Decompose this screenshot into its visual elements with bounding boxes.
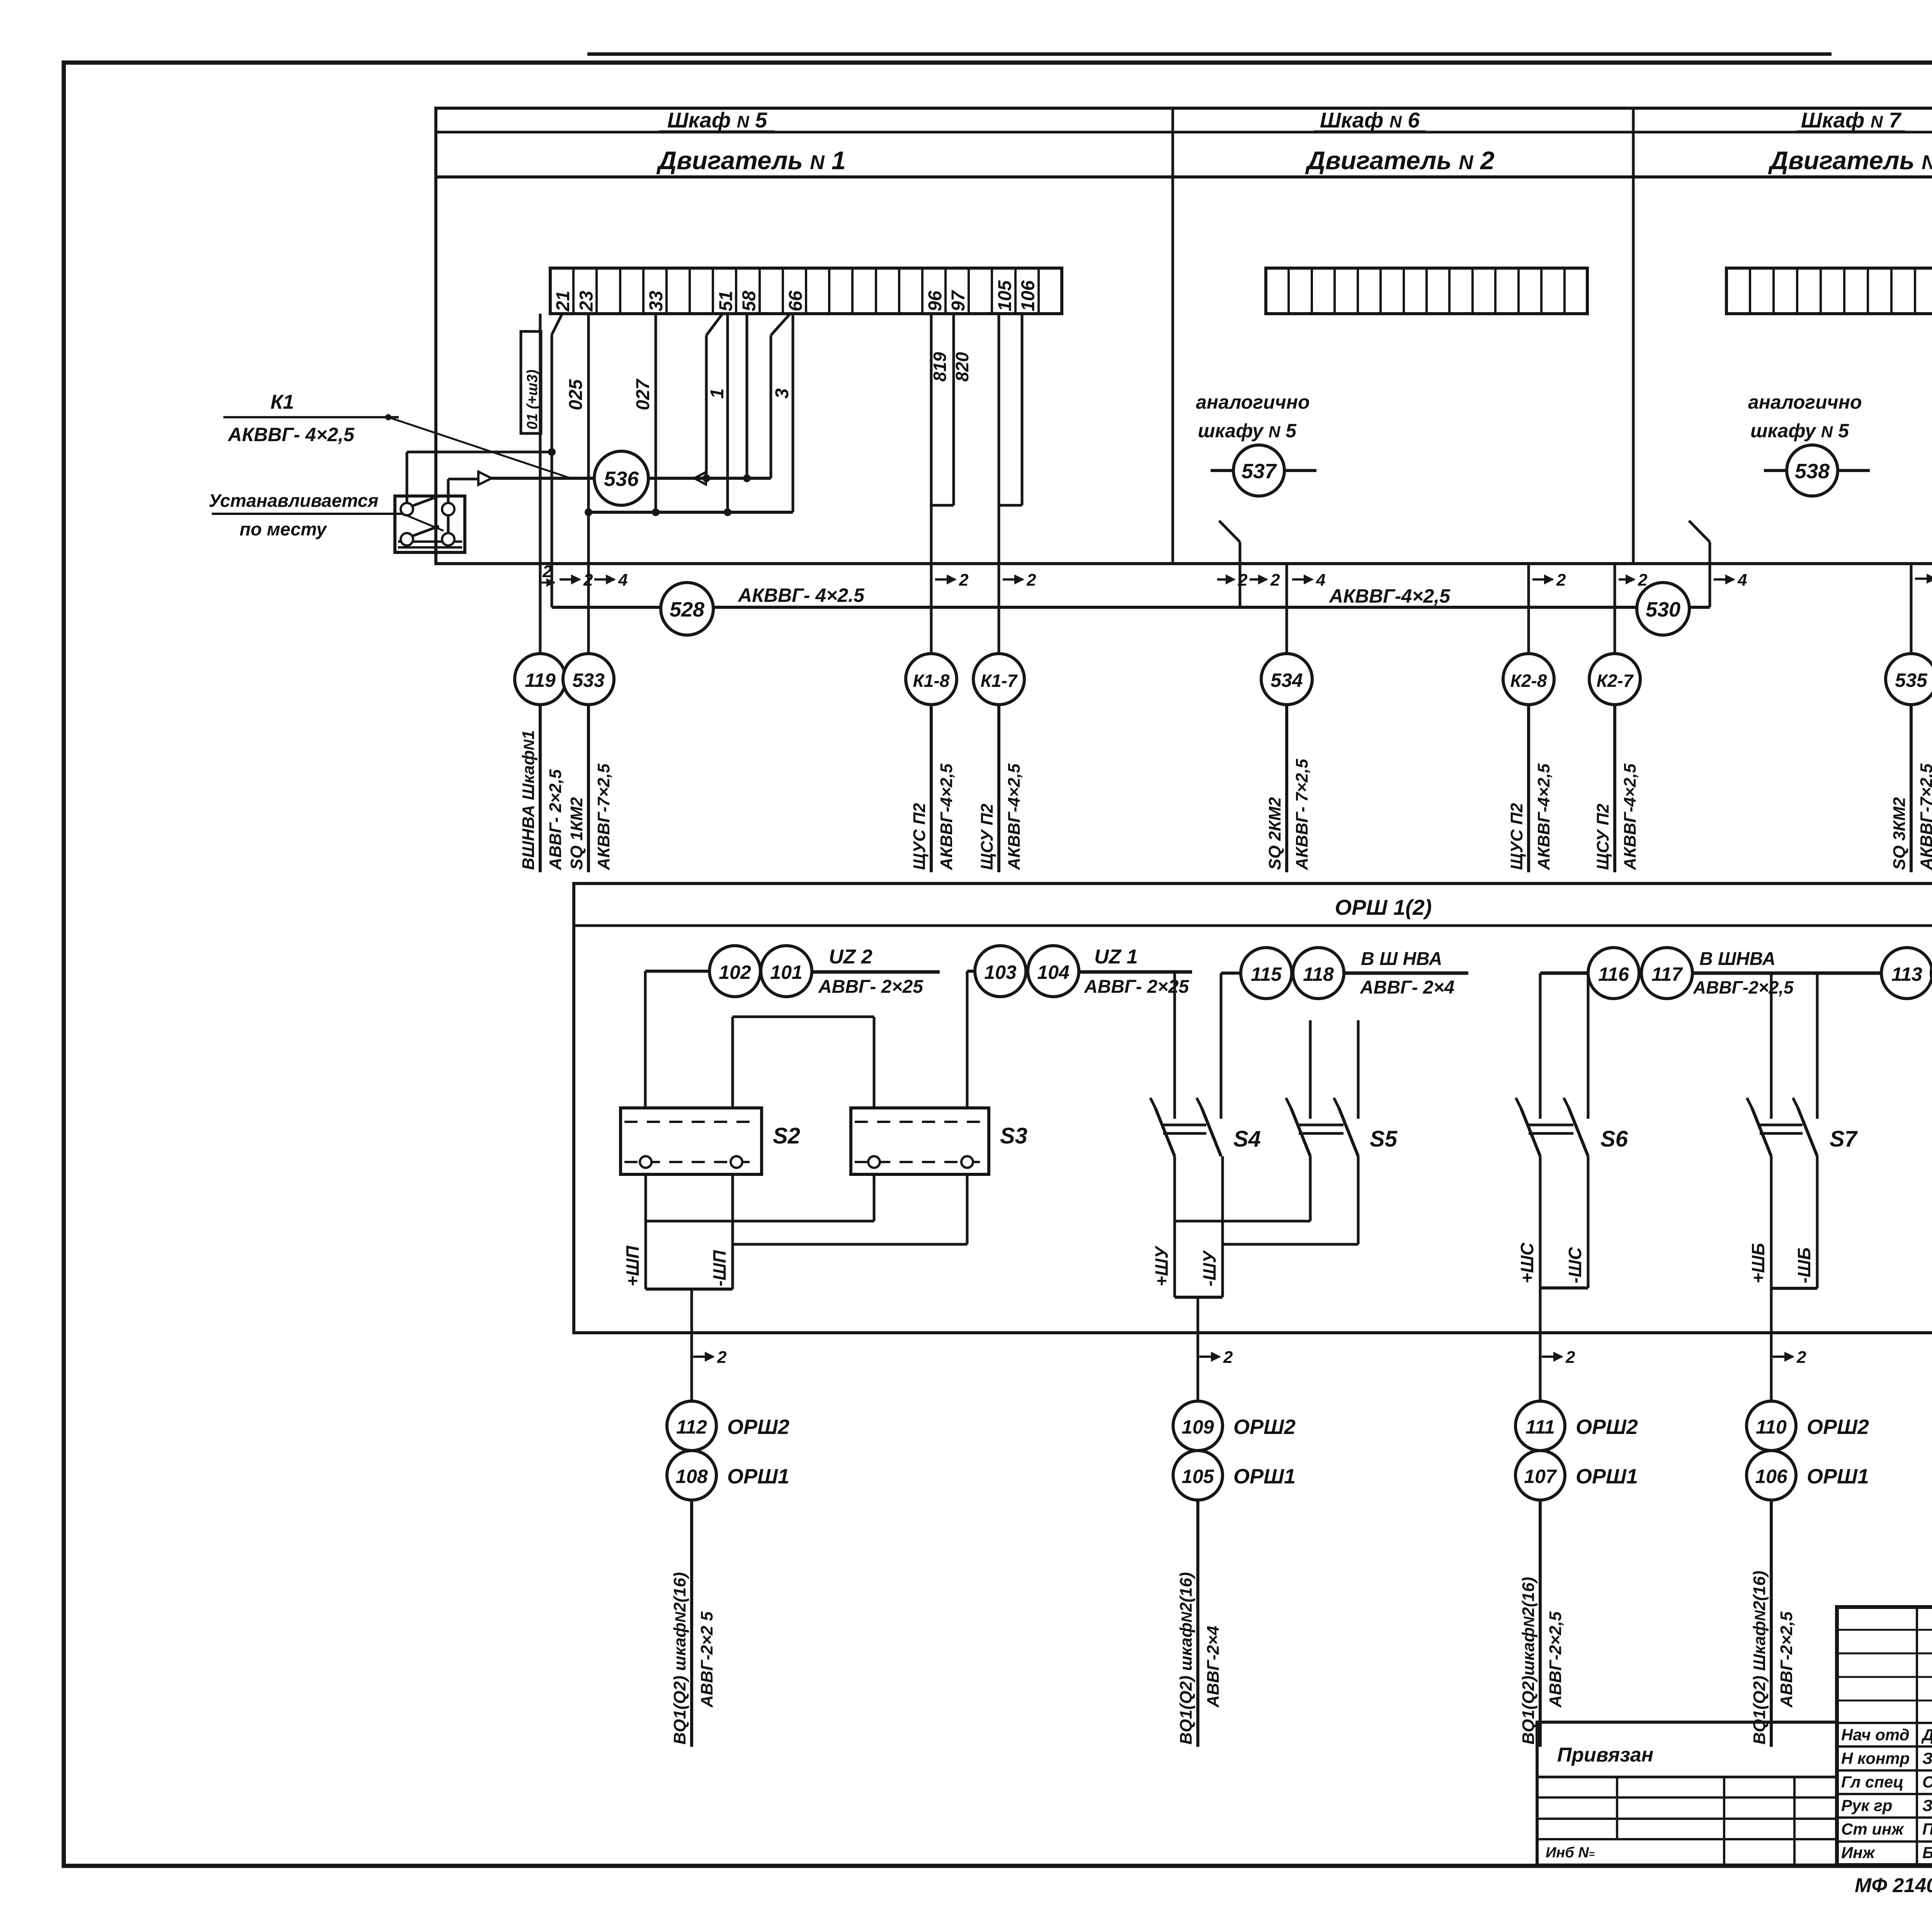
svg-text:ОРШ1: ОРШ1 bbox=[1233, 1465, 1296, 1488]
svg-text:ОРШ 1(2): ОРШ 1(2) bbox=[1335, 895, 1432, 919]
destination circles 111/107 ОРШ2/ОРШ1 bbox=[1515, 1401, 1638, 1747]
S2 lower wires and bracket bbox=[646, 1174, 733, 1289]
svg-text:АВВГ- 2×2,5: АВВГ- 2×2,5 bbox=[546, 769, 565, 870]
switch stub to 536 bus bbox=[447, 479, 450, 503]
svg-text:аналогично: аналогично bbox=[1748, 391, 1862, 413]
svg-text:113: 113 bbox=[1891, 963, 1922, 985]
labels +ШС -ШС bbox=[1517, 1242, 1585, 1283]
svg-text:538: 538 bbox=[1795, 460, 1830, 483]
svg-text:ЩСУ П2: ЩСУ П2 bbox=[978, 804, 997, 870]
label 027 bbox=[633, 379, 653, 410]
svg-text:-ШП: -ШП bbox=[709, 1250, 730, 1286]
svg-text:ЩУС П2: ЩУС П2 bbox=[910, 803, 929, 870]
svg-text:Бренева: Бренева bbox=[1922, 1843, 1932, 1862]
riser into Шкаф6 bbox=[1219, 521, 1240, 607]
svg-text:АКВВГ-7×2,5: АКВВГ-7×2,5 bbox=[594, 763, 613, 870]
wire from terminal 66 to junction line end bbox=[792, 314, 794, 512]
svg-text:UZ 2: UZ 2 bbox=[829, 946, 872, 968]
svg-text:2: 2 bbox=[1638, 571, 1648, 590]
svg-text:103: 103 bbox=[984, 962, 1017, 983]
svg-text:Устанавливается: Устанавливается bbox=[209, 490, 378, 511]
svg-text:117: 117 bbox=[1651, 963, 1683, 985]
svg-text:4: 4 bbox=[1737, 571, 1747, 590]
link S4-S5 left bbox=[1175, 1220, 1310, 1223]
wire from terminal 21 to bus 528 (corner wire) bbox=[552, 314, 562, 607]
привязан box bbox=[1537, 1722, 1837, 1865]
svg-text:97: 97 bbox=[948, 290, 969, 311]
svg-text:537: 537 bbox=[1242, 460, 1277, 483]
circles 116 117 bbox=[1588, 948, 1692, 999]
labels +ШП -ШП bbox=[622, 1245, 730, 1286]
note аналогично шкафу N5 (Шкаф6) bbox=[1196, 391, 1310, 442]
label 820 bbox=[952, 352, 972, 382]
switch internal link bbox=[447, 515, 450, 533]
svg-text:АВВГ-2×2,5: АВВГ-2×2,5 bbox=[1693, 977, 1794, 997]
core count arrow bbox=[1199, 1348, 1233, 1367]
cable bus АКВВГ-4х2,5 bbox=[552, 606, 1710, 609]
svg-text:АКВВГ-7×2,5: АКВВГ-7×2,5 bbox=[1917, 763, 1932, 870]
svg-text:Н контр: Н контр bbox=[1841, 1749, 1910, 1767]
svg-text:2: 2 bbox=[959, 571, 969, 590]
svg-text:ОРШ2: ОРШ2 bbox=[1576, 1415, 1638, 1439]
output wire S7 bbox=[1770, 1288, 1773, 1400]
svg-text:025: 025 bbox=[566, 379, 586, 410]
svg-text:2: 2 bbox=[1270, 571, 1280, 590]
label АКВВГ-4х2,5 (right) bbox=[1328, 585, 1451, 607]
core count labels К2-8 К2-7 530 bbox=[1532, 571, 1747, 590]
circles 113 114 bbox=[1881, 948, 1932, 999]
svg-text:АКВВГ- 4×2.5: АКВВГ- 4×2.5 bbox=[737, 584, 865, 606]
svg-text:Сомин: Сомин bbox=[1922, 1773, 1932, 1791]
svg-text:2: 2 bbox=[1238, 571, 1248, 590]
svg-text:105: 105 bbox=[1182, 1466, 1214, 1487]
svg-text:S4: S4 bbox=[1233, 1126, 1261, 1152]
svg-text:К1-7: К1-7 bbox=[981, 671, 1018, 691]
svg-text:К1-8: К1-8 bbox=[913, 671, 950, 691]
destination circles 109/105 ОРШ2/ОРШ1 bbox=[1173, 1401, 1296, 1747]
svg-text:SQ 1КМ2: SQ 1КМ2 bbox=[567, 797, 586, 870]
top fold line bbox=[587, 53, 1832, 56]
svg-text:533: 533 bbox=[572, 669, 605, 691]
svg-text:Двигатель N 3: Двигатель N 3 bbox=[1768, 146, 1932, 175]
cable circle К2-7 with label ЩСУ П2/АКВВГ-4×2,5 bbox=[1589, 654, 1640, 872]
header Двигатель N2 bbox=[1305, 146, 1495, 175]
link S2-S3 lower left bbox=[646, 1174, 874, 1221]
svg-text:АВВГ-2×2 5: АВВГ-2×2 5 bbox=[697, 1611, 716, 1708]
svg-text:3: 3 bbox=[772, 388, 793, 399]
wire 01(+ш3) from terminal 21 to circle 119 bbox=[539, 314, 542, 654]
wire 027 (terminal 33) bbox=[655, 314, 657, 512]
svg-text:106: 106 bbox=[1755, 1466, 1788, 1487]
svg-text:66: 66 bbox=[786, 291, 806, 311]
svg-text:АВВГ-2×2,5: АВВГ-2×2,5 bbox=[1777, 1611, 1796, 1708]
cable circle 534 with label SQ 2КМ2/АКВВГ- 7×2,5 bbox=[1261, 654, 1312, 872]
svg-text:104: 104 bbox=[1037, 962, 1069, 983]
svg-text:530: 530 bbox=[1646, 598, 1680, 621]
cabinets group box (Шкаф 5,6,7) bbox=[436, 108, 1932, 564]
svg-text:АВВГ- 2×25: АВВГ- 2×25 bbox=[818, 977, 923, 997]
svg-text:2: 2 bbox=[1026, 571, 1036, 590]
link S4-S5 right bbox=[1223, 1243, 1358, 1246]
svg-text:UZ 1: UZ 1 bbox=[1094, 946, 1138, 968]
svg-text:S6: S6 bbox=[1600, 1126, 1628, 1152]
svg-text:119: 119 bbox=[525, 669, 556, 691]
svg-text:-ШБ: -ШБ bbox=[1794, 1247, 1814, 1283]
cable UZ2 circles 102 101 bbox=[645, 946, 812, 997]
svg-text:ОРШ2: ОРШ2 bbox=[727, 1415, 789, 1439]
svg-text:ЩСУ П2: ЩСУ П2 bbox=[1594, 804, 1612, 870]
svg-text:В ШНВА: В ШНВА bbox=[1699, 949, 1776, 969]
svg-text:АВВГ-2×4: АВВГ-2×4 bbox=[1204, 1626, 1223, 1708]
switch stub to junction bbox=[406, 452, 408, 503]
svg-text:-ШС: -ШС bbox=[1565, 1247, 1585, 1283]
svg-text:2: 2 bbox=[1556, 571, 1566, 590]
core count arrow bbox=[1773, 1348, 1806, 1367]
svg-text:109: 109 bbox=[1182, 1416, 1214, 1438]
destination circles 110/106 ОРШ2/ОРШ1 bbox=[1747, 1401, 1869, 1747]
svg-text:Шкаф N 7: Шкаф N 7 bbox=[1801, 108, 1902, 132]
svg-text:528: 528 bbox=[670, 598, 704, 621]
svg-text:АКВВГ-4×2,5: АКВВГ-4×2,5 bbox=[1328, 585, 1451, 607]
svg-text:ОРШ2: ОРШ2 bbox=[1807, 1415, 1869, 1439]
svg-text:2: 2 bbox=[583, 571, 593, 590]
wire 102 down to S2 bbox=[644, 971, 647, 1108]
svg-text:2: 2 bbox=[1565, 1348, 1575, 1367]
wire S2 to S3 top link bbox=[733, 1017, 874, 1108]
svg-text:АКВВГ-4×2,5: АКВВГ-4×2,5 bbox=[937, 763, 956, 870]
core count labels Шкаф6 bbox=[1217, 571, 1325, 590]
svg-text:115: 115 bbox=[1251, 963, 1282, 985]
S6 lower wires and bracket bbox=[1540, 1156, 1588, 1288]
terminal numbers Шкаф5 bbox=[553, 280, 1039, 312]
wires terminals 105,106 to К1-7 bbox=[999, 314, 1022, 654]
svg-text:-ШУ: -ШУ bbox=[1199, 1250, 1219, 1286]
cable circle 530 bbox=[1637, 583, 1689, 635]
svg-text:106: 106 bbox=[1018, 280, 1039, 311]
svg-text:ОРШ2: ОРШ2 bbox=[1233, 1415, 1296, 1439]
svg-text:аналогично: аналогично bbox=[1196, 391, 1310, 413]
svg-text:Инж: Инж bbox=[1841, 1843, 1876, 1862]
label 3 bbox=[772, 388, 793, 399]
core count labels Шкаф5 bbox=[539, 562, 555, 587]
breaker S4 bbox=[1150, 972, 1261, 1156]
svg-text:2: 2 bbox=[542, 562, 552, 581]
svg-text:АКВВГ- 4×2,5: АКВВГ- 4×2,5 bbox=[227, 424, 355, 445]
labels +ШУ -ШУ bbox=[1151, 1245, 1219, 1286]
switch contacts bbox=[401, 503, 454, 545]
svg-text:SQ 3КМ2: SQ 3КМ2 bbox=[1890, 797, 1909, 870]
destination circles 112/108 ОРШ2/ОРШ1 bbox=[667, 1401, 789, 1747]
cable circle К1-8 with label ЩУС П2/АКВВГ-4×2,5 bbox=[906, 654, 957, 872]
svg-text:АКВВГ- 7×2,5: АКВВГ- 7×2,5 bbox=[1293, 759, 1311, 870]
svg-text:4: 4 bbox=[618, 571, 628, 590]
header Шкаф N7 bbox=[1797, 108, 1905, 132]
536 bus line right segment bbox=[648, 472, 771, 484]
svg-text:01 (+ш3): 01 (+ш3) bbox=[524, 370, 541, 430]
divider Шкаф5/Шкаф6 bbox=[1172, 108, 1174, 564]
breaker S5 (reserve) bbox=[1286, 1020, 1398, 1156]
svg-text:534: 534 bbox=[1270, 669, 1303, 691]
note аналогично шкафу N5 (Шкаф7) bbox=[1748, 391, 1862, 442]
label 1 bbox=[707, 388, 728, 399]
svg-text:ОРШ1: ОРШ1 bbox=[1807, 1465, 1869, 1488]
header Шкаф N5 bbox=[659, 108, 775, 132]
svg-text:S2: S2 bbox=[773, 1123, 800, 1148]
switch S2 bbox=[621, 1108, 800, 1174]
svg-text:2: 2 bbox=[1796, 1348, 1806, 1367]
cable circle 537 bbox=[1211, 445, 1316, 496]
svg-text:23: 23 bbox=[576, 291, 597, 312]
svg-text:BQ1(Q2)шкафN2(16): BQ1(Q2)шкафN2(16) bbox=[1519, 1577, 1538, 1745]
wire 535 from Шкаф7 bbox=[1910, 564, 1913, 654]
cable circle 538 bbox=[1764, 445, 1870, 496]
svg-text:536: 536 bbox=[604, 467, 639, 491]
svg-text:107: 107 bbox=[1524, 1466, 1557, 1487]
divider Шкаф6/Шкаф7 bbox=[1632, 108, 1635, 564]
wire 1 dogleg from terminal 51 to 536 bus bbox=[706, 314, 723, 478]
link S2-S3 lower right bbox=[733, 1174, 967, 1244]
ammeter circuit circle 536 bbox=[594, 451, 648, 505]
label box 01 (+ш3) bbox=[521, 331, 541, 433]
svg-text:102: 102 bbox=[719, 962, 751, 983]
label 025 bbox=[566, 379, 586, 410]
svg-text:ВШНВА ШкафN1: ВШНВА ШкафN1 bbox=[519, 730, 538, 870]
terminal strip X1 (Шкаф6) bbox=[1266, 268, 1587, 314]
svg-text:Завьялова: Завьялова bbox=[1922, 1749, 1932, 1767]
svg-text:111: 111 bbox=[1526, 1416, 1555, 1438]
svg-text:Инб N=: Инб N= bbox=[1546, 1845, 1595, 1861]
svg-text:2: 2 bbox=[717, 1348, 727, 1367]
svg-text:Гл спец: Гл спец bbox=[1841, 1773, 1903, 1791]
svg-text:Шкаф N 6: Шкаф N 6 bbox=[1320, 108, 1420, 132]
svg-text:Завьялова: Завьялова bbox=[1922, 1796, 1932, 1814]
terminal strip X1 (Шкаф5) bbox=[550, 268, 1062, 314]
ОРШ1(2) box bbox=[574, 883, 1932, 1333]
wire 103 down to S3 bbox=[966, 971, 969, 1108]
svg-text:BQ1(Q2) ШкафN2(16): BQ1(Q2) ШкафN2(16) bbox=[1750, 1571, 1769, 1745]
svg-text:027: 027 bbox=[633, 379, 653, 410]
svg-text:S5: S5 bbox=[1370, 1126, 1398, 1152]
svg-text:108: 108 bbox=[675, 1466, 708, 1487]
svg-text:АВВГ-2×2,5: АВВГ-2×2,5 bbox=[1546, 1611, 1565, 1708]
svg-text:SQ 2КМ2: SQ 2КМ2 bbox=[1265, 797, 1284, 870]
cable circle 535 with label SQ 3КМ2/АКВВГ-7×2,5 bbox=[1886, 654, 1932, 872]
536 bus line left segment with arrow bbox=[448, 472, 594, 485]
S4 lower wires and bracket bbox=[1175, 1156, 1223, 1297]
label В ШНВА / АВВГ-2х2,5 bbox=[1693, 949, 1794, 997]
svg-text:АВВГ- 2×4: АВВГ- 2×4 bbox=[1360, 977, 1454, 998]
svg-text:BQ1(Q2) шкафN2(16): BQ1(Q2) шкафN2(16) bbox=[1177, 1572, 1196, 1745]
breaker S7 bbox=[1747, 973, 1858, 1156]
cable circle 533 with label SQ 1КМ2/АКВВГ-7×2,5 bbox=[563, 654, 614, 872]
cable В ШНВА 115 118 bbox=[1221, 948, 1468, 999]
callout Устанавливается по месту bbox=[209, 490, 444, 539]
signature table texts bbox=[1841, 1726, 1932, 1862]
terminal strip X1 (Шкаф7) bbox=[1726, 268, 1932, 314]
wire 025 (terminal 23 to 533) bbox=[587, 314, 590, 654]
svg-text:К2-8: К2-8 bbox=[1510, 671, 1547, 691]
svg-text:112: 112 bbox=[676, 1416, 707, 1438]
svg-text:Нач отд: Нач отд bbox=[1841, 1726, 1910, 1744]
switch blades bbox=[412, 496, 439, 536]
svg-text:шкафу N 5: шкафу N 5 bbox=[1198, 420, 1297, 442]
riser into Шкаф7 (bus end) bbox=[1689, 521, 1710, 607]
svg-text:ОРШ1: ОРШ1 bbox=[727, 1465, 789, 1488]
output wire ОРШ С2/С3 bbox=[690, 1289, 693, 1400]
svg-text:АКВВГ-4×2,5: АКВВГ-4×2,5 bbox=[1534, 763, 1553, 870]
svg-text:105: 105 bbox=[995, 280, 1015, 311]
cable В ШНВА 116 117 113 114 common line bbox=[1540, 972, 1932, 975]
svg-text:819: 819 bbox=[930, 352, 950, 382]
инв номер bbox=[1546, 1845, 1595, 1861]
svg-text:21: 21 bbox=[553, 291, 573, 312]
svg-text:ЩУС П2: ЩУС П2 bbox=[1507, 803, 1526, 870]
cable circle К1-7 with label ЩСУ П2/АКВВГ-4×2,5 bbox=[973, 654, 1024, 872]
wire К2-7 from Шкаф6 bbox=[1614, 564, 1616, 654]
wires 819/820 terminals 96,97 to К1-8 bbox=[931, 314, 954, 654]
cable circle К2-8 with label ЩУС П2/АКВВГ-4×2,5 bbox=[1503, 654, 1554, 872]
svg-text:Прокофьева: Прокофьева bbox=[1922, 1820, 1932, 1838]
svg-text:+ШБ: +ШБ bbox=[1748, 1243, 1768, 1283]
output wire S4 bbox=[1197, 1297, 1199, 1400]
svg-text:33: 33 bbox=[646, 291, 667, 311]
header Шкаф N6 bbox=[1314, 108, 1426, 132]
title block stamp bbox=[1837, 1607, 1932, 1865]
svg-text:АКВВГ-4×2,5: АКВВГ-4×2,5 bbox=[1621, 763, 1639, 870]
form number МФ2140-08 bbox=[1855, 1874, 1932, 1908]
svg-text:820: 820 bbox=[952, 352, 972, 382]
svg-text:51: 51 bbox=[716, 291, 736, 311]
switch S3 bbox=[851, 1108, 1027, 1174]
transfer switch box bbox=[395, 496, 465, 552]
svg-text:К1: К1 bbox=[270, 391, 294, 413]
header Двигатель N1 bbox=[656, 146, 845, 175]
breaker S6 bbox=[1516, 973, 1628, 1156]
svg-text:1: 1 bbox=[707, 388, 728, 399]
svg-text:Шкаф N 5: Шкаф N 5 bbox=[667, 108, 767, 132]
output wire S6 bbox=[1539, 1288, 1542, 1400]
core count labels Шкаф7 bbox=[1915, 570, 1932, 589]
svg-text:Привязан: Привязан bbox=[1557, 1744, 1653, 1766]
labels +ШБ -ШБ bbox=[1748, 1243, 1814, 1283]
wire switch to junction bbox=[407, 451, 552, 454]
svg-text:BQ1(Q2) шкафN2(16): BQ1(Q2) шкафN2(16) bbox=[670, 1572, 689, 1745]
junction line (collector) bbox=[585, 508, 793, 516]
label В ШНВА / АВВГ-2х4 bbox=[1360, 949, 1454, 998]
svg-text:118: 118 bbox=[1303, 963, 1334, 985]
cable circle 528 bbox=[661, 583, 713, 635]
svg-text:К2-7: К2-7 bbox=[1597, 671, 1634, 691]
wire К2-8 from Шкаф6 bbox=[1527, 564, 1530, 654]
label 819 bbox=[930, 352, 950, 382]
svg-text:58: 58 bbox=[739, 291, 760, 311]
svg-text:Долготов: Долготов bbox=[1921, 1726, 1932, 1744]
svg-text:4: 4 bbox=[1316, 571, 1325, 590]
svg-text:+ШП: +ШП bbox=[622, 1245, 643, 1286]
wire 534 from Шкаф6 bbox=[1286, 564, 1288, 654]
label UZ2 / АВВГ-2х25 bbox=[812, 946, 940, 997]
svg-text:S7: S7 bbox=[1830, 1126, 1858, 1152]
junction dot wire21/switch bbox=[548, 448, 556, 456]
core count arrow bbox=[693, 1348, 727, 1367]
привязан text bbox=[1557, 1744, 1653, 1766]
label UZ1 / АВВГ-2х25 bbox=[1079, 946, 1192, 997]
svg-text:шкафу N 5: шкафу N 5 bbox=[1750, 420, 1849, 442]
header Двигатель N3 bbox=[1768, 146, 1932, 175]
wire from terminal 58 to 536 bus bbox=[746, 314, 748, 478]
svg-text:S3: S3 bbox=[1000, 1123, 1027, 1148]
svg-text:МФ 2140 -08: МФ 2140 -08 bbox=[1855, 1874, 1932, 1897]
svg-text:2: 2 bbox=[1223, 1348, 1233, 1367]
svg-text:Рук гр: Рук гр bbox=[1841, 1796, 1892, 1814]
svg-text:В Ш НВА: В Ш НВА bbox=[1361, 949, 1442, 969]
svg-text:Ст инж: Ст инж bbox=[1841, 1820, 1904, 1838]
cable UZ1 circles 103 104 bbox=[967, 946, 1079, 997]
wire from terminal 51 to junction line bbox=[726, 314, 729, 512]
svg-text:96: 96 bbox=[925, 291, 946, 311]
svg-text:АКВВГ-4×2,5: АКВВГ-4×2,5 bbox=[1005, 763, 1024, 870]
S5 lower wires bbox=[1310, 1156, 1358, 1244]
svg-text:101: 101 bbox=[770, 962, 802, 983]
cable circle 119 with label ВШНВА Шкаф<tspan style='font-size:38px'>N</tspan>1/АВВГ- 2×2,5 bbox=[515, 654, 566, 872]
ОРШ1(2) title bbox=[1335, 895, 1432, 919]
label АКВВГ-4х2.5 (left) bbox=[737, 584, 865, 606]
svg-text:по месту: по месту bbox=[240, 519, 328, 539]
svg-text:110: 110 bbox=[1756, 1416, 1787, 1438]
svg-text:116: 116 bbox=[1598, 963, 1629, 985]
core count arrow bbox=[1542, 1348, 1575, 1367]
svg-text:535: 535 bbox=[1895, 669, 1928, 691]
core count labels К1-8 К1-7 bbox=[935, 571, 1036, 590]
callout К1 / АКВВГ-4х2,5 bbox=[223, 391, 571, 478]
wire 3 dogleg from terminal 66 to 536 bus end bbox=[771, 314, 790, 478]
svg-text:ОРШ1: ОРШ1 bbox=[1576, 1465, 1638, 1488]
svg-text:+ШС: +ШС bbox=[1517, 1242, 1537, 1283]
S7 lower wires and bracket bbox=[1771, 1156, 1817, 1288]
svg-text:+ШУ: +ШУ bbox=[1151, 1245, 1172, 1286]
